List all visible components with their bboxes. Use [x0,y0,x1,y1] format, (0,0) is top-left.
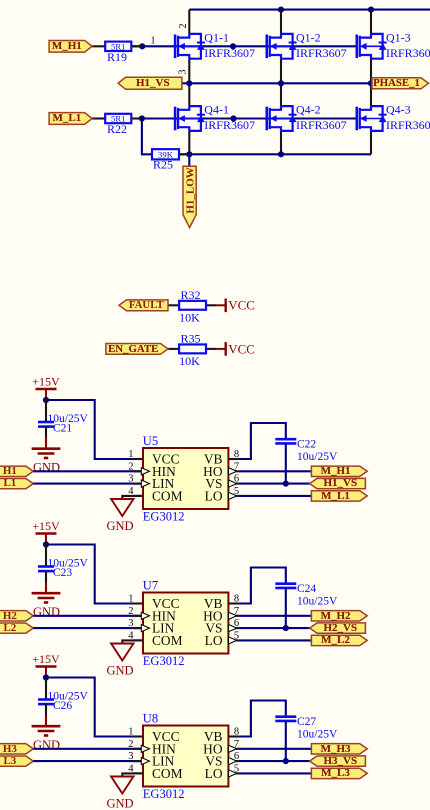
junction bottom rail Q4-1 [186,151,192,157]
wire H3 to HIN [33,748,143,750]
svg-text:H1_VS: H1_VS [323,477,357,489]
wire L1 to LIN [33,483,143,485]
wire R32 to VCC [206,304,216,306]
junction C22 to VS (U5) [283,481,289,487]
svg-text:10K: 10K [179,354,200,368]
wire H1_LOW stem [188,154,190,166]
capacitor C21 [45,400,47,422]
svg-text:3: 3 [178,70,189,75]
svg-text:PHASE_1: PHASE_1 [373,77,420,89]
wire HO to M_H3 [238,748,311,750]
svg-text:VCC: VCC [228,298,255,313]
pin 4 COM (U5) [133,495,143,497]
capacitor C22 [275,438,296,441]
input arrow pin 3 (U8) [141,758,149,765]
wire HO to M_H1 [238,470,311,472]
svg-text:4: 4 [128,763,134,774]
svg-text:FAULT: FAULT [129,299,165,311]
capacitor C26 [45,678,47,700]
input arrow pin 2 (U8) [141,745,149,752]
wire LO to M_L2 [238,639,311,641]
svg-text:2: 2 [128,739,133,750]
wire VB to C24 [238,568,285,604]
transistor Q4-3 [357,106,387,131]
svg-text:EN_GATE: EN_GATE [108,343,158,355]
port H1_LOW [183,166,196,227]
svg-text:8: 8 [234,449,239,460]
wire R22 to gate bus [131,117,142,119]
pin drain Q1-1 [188,10,190,34]
output arrow pin 6 (U5) [229,480,237,487]
svg-text:M_H1: M_H1 [321,465,351,477]
pin 3 LIN (U5) [133,483,143,485]
svg-text:VCC: VCC [228,341,255,356]
svg-text:C22: C22 [297,439,316,451]
wire FAULT to R32 [168,304,179,306]
svg-text:IRFR3607: IRFR3607 [204,46,255,60]
svg-text:IRFR3607: IRFR3607 [296,46,347,60]
resistor R25 [152,149,179,159]
pin drain Q1-3 [370,10,372,34]
svg-text:IRFR3607: IRFR3607 [296,118,347,132]
pin 5 LO (U8) [228,772,238,774]
svg-text:M_L1: M_L1 [321,490,350,502]
wire EN_GATE to R35 [168,348,179,350]
power VCC at R32 [224,299,226,313]
svg-text:R22: R22 [107,122,127,136]
ground bars (C21) [32,447,61,450]
svg-text:COM: COM [152,633,183,648]
output arrow pin 5 (U7) [229,637,237,644]
svg-text:LO: LO [205,766,223,781]
port M_H3 [311,744,367,754]
transistor Q4-2 [267,106,297,131]
capacitor C24 [275,582,296,585]
junction VS at Q1-1 [186,80,192,86]
wire L3 to LIN [33,760,143,762]
output arrow pin 6 (U8) [229,758,237,765]
wire HO to M_H2 [238,615,311,617]
output arrow pin 7 (U7) [229,612,237,619]
svg-text:3: 3 [128,474,133,485]
junction gate bus 1 a [139,43,145,49]
junction bottom rail Q4-2 [278,151,284,157]
svg-text:H3_VS: H3_VS [323,755,357,767]
pin 8 VB (U7) [228,602,238,604]
wire VB to C27 [238,701,285,737]
wire VS rail [182,82,371,84]
port H3_VS [310,756,366,766]
wire R19 to gate bus [131,45,142,47]
svg-text:C21: C21 [53,422,72,434]
svg-text:GND: GND [33,738,60,752]
port H2 [0,611,33,621]
svg-text:R32: R32 [181,288,201,302]
pin 1 VCC (U8) [133,735,143,737]
svg-text:3: 3 [128,751,133,762]
pin drain Q4-2 [280,83,282,106]
wire COM to ground (U8) [122,773,143,776]
power +15V (U5 section) [36,388,57,390]
svg-text:M_H2: M_H2 [321,610,351,622]
pin 7 HO (U5) [228,470,238,472]
port H3 [0,744,33,754]
power VCC at R35 [224,342,226,356]
svg-text:1: 1 [128,594,133,605]
wire VS to H3_VS [238,760,309,762]
svg-text:C26: C26 [53,700,72,712]
pin 1 VCC (U5) [133,458,143,460]
svg-text:Q1-2: Q1-2 [296,30,321,44]
svg-text:Q1-1: Q1-1 [204,30,229,44]
output arrow pin 5 (U8) [229,770,237,777]
junction top rail at Q1-3 [368,7,374,13]
capacitor C23 [45,545,47,567]
pin 6 VS (U7) [228,627,238,629]
svg-text:U8: U8 [143,712,158,726]
transistor Q1-1 [175,34,205,59]
pin 2 HIN (U5) [133,470,143,472]
ground triangle (U7) [111,644,133,661]
svg-text:GND: GND [33,605,60,619]
resistor R19 [105,42,131,51]
op-amp U5 EG3012 [143,448,228,509]
port PHASE_1 [372,78,429,89]
svg-text:L1: L1 [3,477,16,489]
svg-text:U5: U5 [143,434,158,448]
svg-text:COM: COM [152,766,183,781]
svg-text:C27: C27 [297,716,316,728]
port H1_VS [118,77,182,89]
wire gate bus low side [130,117,358,119]
output arrow pin 5 (U5) [229,492,237,499]
port M_H1 [311,466,367,476]
junction +15V node (U5) [43,397,49,403]
port M_L1 [311,491,367,501]
wire H1 to HIN [33,470,143,472]
svg-text:M_H3: M_H3 [321,743,351,755]
pin 1 VCC (U7) [133,602,143,604]
pin 7 HO (U8) [228,748,238,750]
svg-text:IRFR3607: IRFR3607 [386,46,430,60]
wire VS to H2_VS [238,627,309,629]
input arrow pin 2 (U5) [141,468,149,475]
ground bars (C26) [32,725,61,728]
svg-text:GND: GND [106,519,133,533]
port M_L1 [49,113,92,125]
wire M_L1 to R22 [92,117,105,119]
wire LO to M_L1 [238,495,311,497]
svg-text:H2: H2 [3,610,18,622]
pin source Q4-2 [280,131,282,154]
wire R25 branch [179,153,189,155]
pin 5 LO (U7) [228,639,238,641]
port L2 [0,623,33,633]
wire VB to C22 [238,423,285,459]
svg-text:+15V: +15V [32,375,60,389]
wire R35 to VCC [206,348,216,350]
wire M_H1 to R19 [92,45,105,47]
pin source Q1-2 [280,59,282,84]
svg-text:H1_LOW: H1_LOW [184,167,196,213]
pin 2 HIN (U8) [133,748,143,750]
port H1_VS [310,478,366,488]
junction gate bus 2 b [230,115,236,121]
pin 6 VS (U8) [228,760,238,762]
svg-text:H1_VS: H1_VS [136,77,170,89]
svg-text:R25: R25 [153,158,173,172]
input arrow pin 3 (U7) [141,625,149,632]
wire COM to ground (U7) [122,640,143,643]
ground triangle (U5) [111,499,133,516]
power +15V (U8 section) [36,665,57,667]
pin source Q1-3 [370,59,372,84]
svg-text:1: 1 [128,727,133,738]
svg-text:GND: GND [33,461,60,475]
svg-text:10u/25V: 10u/25V [297,596,338,608]
port L1 [0,478,33,488]
wire top drain rail [189,9,430,11]
port M_H2 [311,611,367,621]
output arrow pin 7 (U8) [229,745,237,752]
pin 3 LIN (U7) [133,627,143,629]
transistor Q1-3 [357,34,387,59]
port FAULT [119,300,168,311]
svg-text:M_L2: M_L2 [321,634,350,646]
svg-text:+15V: +15V [32,652,60,666]
pin 4 COM (U7) [133,639,143,641]
wire +15V to VCC pin (U8) [46,678,143,737]
pin drain Q4-3 [370,83,372,106]
svg-text:+15V: +15V [32,519,60,533]
port H1 [0,466,33,476]
transistor Q4-1 [175,106,205,131]
svg-text:GND: GND [106,797,133,810]
pin 5 LO (U5) [228,495,238,497]
pin 8 VB (U8) [228,735,238,737]
svg-text:H3: H3 [3,743,18,755]
transistor Q1-2 [267,34,297,59]
svg-text:R19: R19 [107,50,127,64]
junction top rail at Q1-2 [278,7,284,13]
op-amp U8 EG3012 [143,726,228,787]
pin 3 LIN (U8) [133,760,143,762]
svg-text:4: 4 [128,486,134,497]
svg-text:1: 1 [151,36,156,47]
resistor R32 [179,301,206,310]
svg-text:L3: L3 [3,755,16,767]
wire VS to H1_VS [238,483,309,485]
port L3 [0,756,33,766]
port M_H1 [49,40,92,52]
wire LO to M_L3 [238,772,311,774]
svg-text:C24: C24 [297,583,316,595]
op-amp U7 EG3012 [143,593,228,654]
svg-text:M_L3: M_L3 [321,767,350,779]
svg-text:Q4-2: Q4-2 [296,103,321,117]
pin source Q4-1 [188,131,190,154]
svg-text:EG3012: EG3012 [143,787,185,801]
svg-text:L2: L2 [3,622,16,634]
port H2_VS [310,623,366,633]
junction gate bus 2 a [139,115,145,121]
input arrow pin 2 (U7) [141,612,149,619]
wire H2 to HIN [33,615,143,617]
junction C27 to VS (U8) [283,758,289,764]
svg-text:H2_VS: H2_VS [323,622,357,634]
svg-text:R35: R35 [181,332,201,346]
junction +15V node (U7) [43,541,49,547]
svg-text:Q1-3: Q1-3 [386,30,411,44]
output arrow pin 6 (U7) [229,625,237,632]
pin source Q4-3 [370,131,372,154]
capacitor C27 [275,715,296,718]
svg-text:IRFR3607: IRFR3607 [204,118,255,132]
pin source Q1-1 [188,59,190,84]
junction C24 to VS (U7) [283,625,289,631]
port M_L3 [311,768,367,778]
resistor R22 [105,114,131,123]
ground bars (C23) [32,592,61,595]
svg-text:8: 8 [234,727,239,738]
junction VS PHASE_1 [368,80,374,86]
pin drain Q4-1 [188,83,190,106]
svg-text:LO: LO [205,633,223,648]
port M_L2 [311,635,367,645]
svg-text:Q4-1: Q4-1 [204,103,229,117]
pin 7 HO (U7) [228,615,238,617]
svg-text:8: 8 [234,594,239,605]
wire L2 to LIN [33,627,143,629]
svg-text:EG3012: EG3012 [143,654,185,668]
output arrow pin 7 (U5) [229,468,237,475]
svg-text:10K: 10K [179,310,200,324]
svg-text:M_L1: M_L1 [52,112,81,124]
pin drain Q1-2 [280,10,282,34]
input arrow pin 3 (U5) [141,480,149,487]
svg-text:2: 2 [128,461,133,472]
junction +15V node (U8) [43,674,49,680]
svg-text:LO: LO [205,488,223,503]
pin 2 HIN (U7) [133,615,143,617]
power +15V (U7 section) [36,532,57,534]
pin 6 VS (U5) [228,483,238,485]
junction gate bus 1 b [230,43,236,49]
wire gate bus high side [130,45,358,47]
junction VS at Q1-2 [278,80,284,86]
resistor R35 [179,344,206,353]
svg-text:4: 4 [128,630,134,641]
svg-text:Q4-3: Q4-3 [386,103,411,117]
svg-text:2: 2 [128,606,133,617]
ground triangle (U8) [111,777,133,794]
svg-text:COM: COM [152,488,183,503]
pin 8 VB (U5) [228,458,238,460]
svg-text:M_H1: M_H1 [52,40,82,52]
wire +15V to VCC pin (U7) [46,545,143,604]
svg-text:1: 1 [128,449,133,460]
wire bottom source rail [142,119,371,155]
svg-text:C23: C23 [53,567,72,579]
svg-text:10u/25V: 10u/25V [297,729,338,741]
svg-text:IRFR3607: IRFR3607 [386,118,430,132]
wire +15V to VCC pin (U5) [46,400,143,459]
svg-text:GND: GND [106,664,133,678]
svg-text:10u/25V: 10u/25V [297,451,338,463]
svg-text:U7: U7 [143,579,158,593]
svg-text:3: 3 [128,618,133,629]
port EN_GATE [106,344,168,355]
svg-text:EG3012: EG3012 [143,509,185,523]
svg-text:2: 2 [178,24,189,29]
wire COM to ground (U5) [122,496,143,499]
pin 4 COM (U8) [133,772,143,774]
svg-text:H1: H1 [3,465,17,477]
